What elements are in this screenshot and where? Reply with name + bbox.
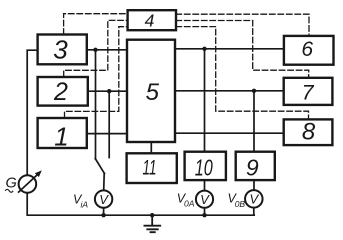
- svg-text:8: 8: [302, 119, 316, 146]
- block 10: [185, 152, 226, 180]
- svg-text:V: V: [99, 192, 109, 207]
- wire: block5 to block6: [175, 48, 284, 50]
- svg-text:2: 2: [53, 78, 68, 106]
- wire: vertical node on block7 line through block9 and voltmeter VoB to bottom bus: [253, 91, 255, 215]
- junction node on block2 line: [107, 89, 111, 93]
- svg-text:0B: 0B: [235, 199, 246, 209]
- wire: switch pivot down to voltmeter ViA and bottom bus: [103, 173, 106, 215]
- svg-text:9: 9: [246, 155, 259, 181]
- junction node bottom bus at ViA: [101, 213, 105, 217]
- junction node bottom bus at VoA: [202, 213, 206, 217]
- svg-text:V: V: [200, 192, 210, 207]
- wire: vertical from node on block2 line down to switch right contact: [108, 91, 110, 157]
- generator adjustment arrow: [18, 170, 42, 192]
- dashed control line: block4 right to block8 top: [176, 27, 309, 120]
- wire: block5 bottom to block11 top: [150, 142, 152, 153]
- wire: block5 to block7: [175, 90, 284, 92]
- wire: vertical node on block6 line through block10 and voltmeter VoA to bottom bus: [204, 49, 206, 215]
- dashed control line: block4 right to block6 top: [176, 14, 309, 36]
- svg-text:7: 7: [302, 80, 315, 104]
- junction node on block7 line: [252, 89, 256, 93]
- wire: block2 to block5: [88, 90, 128, 92]
- voltmeter VoB circle: [245, 190, 262, 208]
- junction node on block3 line: [93, 48, 97, 52]
- dashed control line: block1 top to block4 left: [65, 27, 128, 118]
- block 3: [38, 35, 87, 65]
- svg-text:0A: 0A: [184, 199, 195, 209]
- ground: [144, 215, 160, 232]
- svg-text:3: 3: [53, 35, 68, 65]
- block 9: [236, 152, 275, 180]
- svg-text:iA: iA: [81, 200, 89, 210]
- svg-text:4: 4: [145, 10, 155, 30]
- switch S blade: [95, 159, 104, 174]
- dashed control line: block4 right to block7 top: [176, 21, 309, 78]
- svg-text:V: V: [249, 192, 259, 207]
- block 5: [127, 40, 175, 142]
- dashed control line: block2 top to block4 left: [64, 20, 128, 76]
- block 4: [128, 10, 176, 30]
- wire: block1 to block5: [87, 133, 128, 135]
- voltmeter VoA circle: [196, 191, 213, 208]
- block 6: [284, 36, 334, 65]
- junction node on block6 line: [202, 47, 206, 51]
- svg-text:11: 11: [143, 157, 157, 180]
- voltmeter ViA circle: [95, 190, 112, 207]
- block 11: [127, 153, 177, 183]
- block 2: [38, 77, 88, 106]
- wire: block5 to block8: [175, 132, 284, 134]
- wire: vertical from node on block3 line down to switch left contact: [95, 50, 97, 159]
- svg-text:1: 1: [54, 122, 68, 152]
- svg-text:10: 10: [195, 155, 213, 181]
- generator G circle: [19, 175, 37, 193]
- wire: generator branch, left vertical and bottom bus: [27, 50, 254, 215]
- block 1: [38, 118, 87, 148]
- svg-text:5: 5: [146, 79, 160, 106]
- svg-text:6: 6: [301, 38, 313, 61]
- junction node bottom bus at ground: [150, 213, 154, 217]
- wire: block3 to block5: [87, 49, 128, 51]
- block 7: [284, 78, 333, 105]
- dashed control line: block3 top to block4 left: [64, 14, 128, 35]
- block 8: [284, 119, 333, 145]
